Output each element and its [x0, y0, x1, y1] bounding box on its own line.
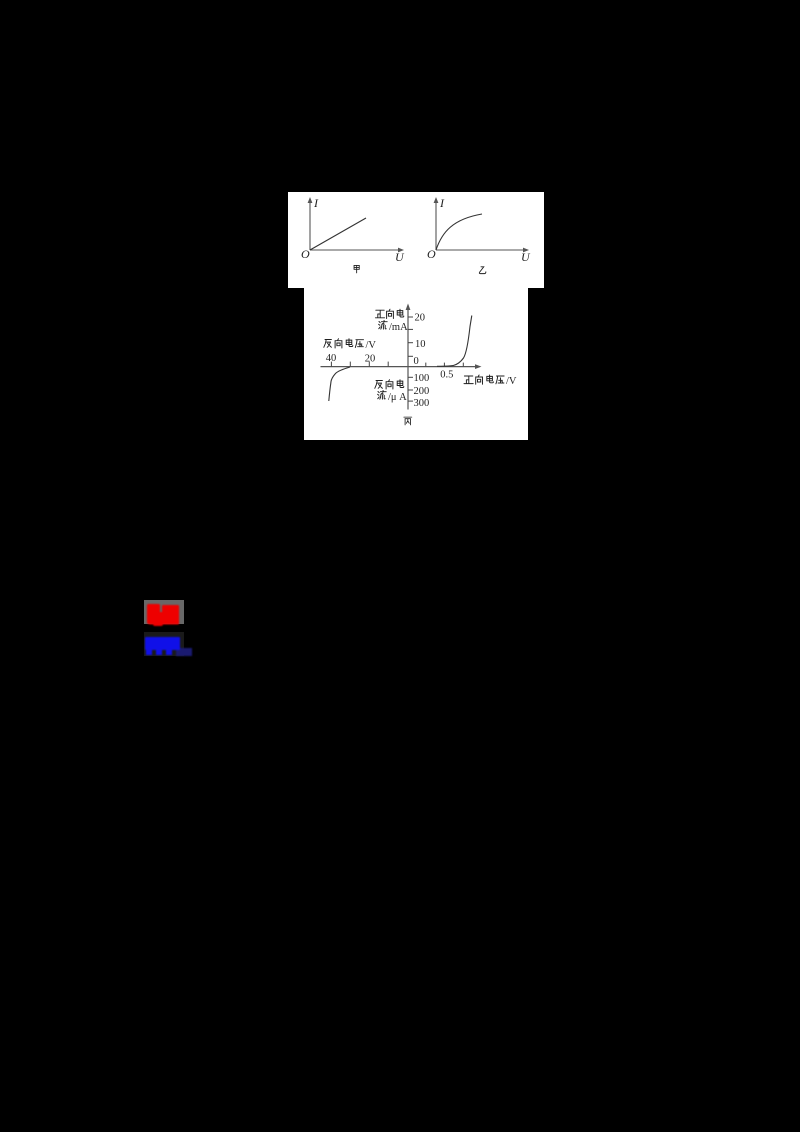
svg-text:/V: /V — [506, 376, 517, 387]
svg-text:U: U — [521, 250, 531, 264]
svg-text:10: 10 — [415, 339, 426, 350]
svg-text:U: U — [395, 250, 405, 264]
svg-text:/μ A: /μ A — [388, 392, 407, 403]
svg-text:/mA: /mA — [389, 322, 408, 333]
svg-text:300: 300 — [414, 398, 430, 409]
svg-text:/V: /V — [366, 340, 377, 351]
svg-text:20: 20 — [365, 353, 376, 364]
svg-text:0.5: 0.5 — [440, 369, 453, 380]
svg-text:0: 0 — [414, 356, 419, 367]
svg-text:200: 200 — [414, 386, 430, 397]
svg-text:O: O — [301, 247, 310, 261]
svg-text:100: 100 — [414, 373, 430, 384]
svg-text:40: 40 — [326, 353, 337, 364]
svg-text:O: O — [427, 247, 436, 261]
svg-text:20: 20 — [415, 313, 426, 324]
